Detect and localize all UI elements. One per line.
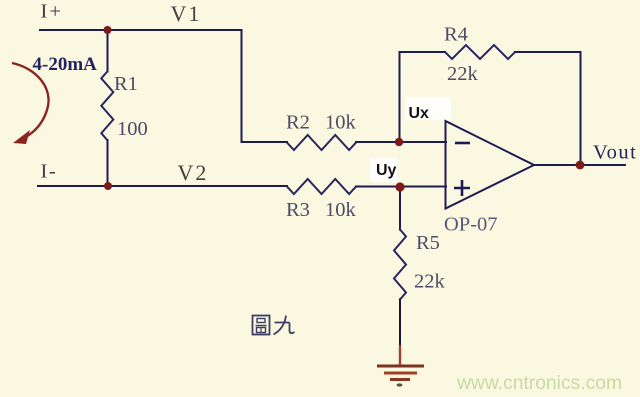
svg-text:R3: R3 xyxy=(286,199,310,221)
svg-text:Uy: Uy xyxy=(376,162,397,179)
svg-text:Ux: Ux xyxy=(409,105,430,122)
svg-text:www.cntronics.com: www.cntronics.com xyxy=(456,373,622,394)
svg-text:R5: R5 xyxy=(416,232,440,254)
svg-text:10k: 10k xyxy=(325,199,357,221)
svg-text:Vout: Vout xyxy=(593,142,637,164)
svg-text:I-: I- xyxy=(41,161,58,183)
svg-text:100: 100 xyxy=(117,118,148,140)
svg-text:22k: 22k xyxy=(447,63,479,85)
svg-text:R4: R4 xyxy=(444,24,468,46)
svg-text:R1: R1 xyxy=(114,73,138,95)
svg-text:OP-07: OP-07 xyxy=(444,214,498,236)
svg-text:V1: V1 xyxy=(171,1,202,26)
svg-text:V2: V2 xyxy=(178,160,209,185)
svg-text:R2: R2 xyxy=(286,112,310,134)
svg-text:22k: 22k xyxy=(414,271,446,293)
svg-text:4-20mA: 4-20mA xyxy=(33,54,98,75)
svg-text:10k: 10k xyxy=(325,112,357,134)
svg-text:I+: I+ xyxy=(41,1,63,23)
